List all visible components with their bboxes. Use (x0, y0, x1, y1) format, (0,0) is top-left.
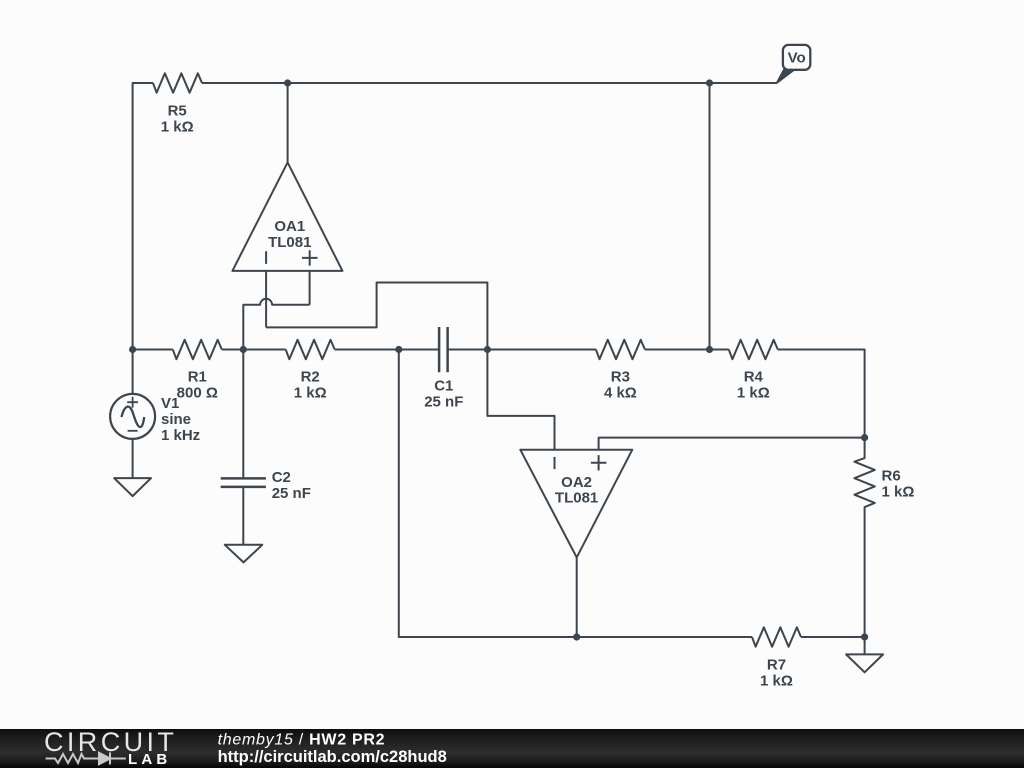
op-amp OA2 triangle (520, 450, 632, 558)
svg-text:R6: R6 (882, 468, 901, 485)
wire bottom net: C1 left node down and right to R7 (399, 350, 752, 638)
wire R2 to C1 (335, 349, 439, 351)
wire OA2 noninv input to R6 top node (599, 438, 865, 450)
svg-text:http://circuitlab.com/c28hud8: http://circuitlab.com/c28hud8 (218, 748, 447, 766)
wire OA1 inv input loop to C1 right node (266, 283, 487, 350)
wire top (net Vout) from R5 to Vo flag (202, 82, 776, 84)
wire C1 right node down to OA2 inv input (487, 350, 554, 450)
svg-text:1 kΩ: 1 kΩ (294, 385, 327, 402)
node: R2 / C1 / bottom net (395, 346, 402, 353)
svg-text:25 nF: 25 nF (424, 394, 463, 411)
svg-text:1 kΩ: 1 kΩ (737, 385, 770, 402)
wire R7 to ground node (801, 636, 865, 638)
V1 minus marker (128, 430, 138, 432)
ground symbol (V1) (114, 478, 151, 496)
wire vertical from top net down to R3/R4 node (709, 83, 711, 350)
svg-text:OA1: OA1 (274, 218, 305, 235)
wire V1 bottom to ground (132, 439, 134, 478)
svg-text:R5: R5 (168, 103, 187, 120)
OA1 plus marker (302, 250, 318, 265)
footer bar (0, 729, 1024, 768)
wire OA1 output up to top net (287, 83, 289, 162)
V1 plus marker (127, 397, 138, 408)
wire ground stub at R6/R7 node (864, 637, 866, 654)
node: C1 / OA1- / OA2- (484, 346, 491, 353)
svg-text:TL081: TL081 (268, 234, 311, 251)
svg-text:C1: C1 (434, 378, 453, 395)
node: V1 / R1 / R5 (129, 346, 136, 353)
OA1 inverting marker (265, 251, 267, 264)
op-amp OA1 triangle (232, 162, 342, 271)
node: OA1 out / top net (284, 79, 291, 86)
svg-text:1 kΩ: 1 kΩ (882, 484, 915, 501)
OA1 inverting input pin (265, 271, 267, 328)
voltage source V1 circle (110, 394, 155, 439)
resistor R3 (596, 340, 645, 359)
resistor R5 (153, 73, 202, 92)
wire C2 branch: node down to C2 (242, 350, 244, 479)
svg-text:1 kHz: 1 kHz (161, 427, 200, 444)
svg-text:LAB: LAB (128, 751, 171, 768)
wire OA2 output down to bottom net (576, 557, 578, 637)
svg-text:25 nF: 25 nF (272, 485, 311, 502)
node junction dots (129, 79, 868, 640)
svg-text:800 Ω: 800 Ω (177, 385, 218, 402)
resistor R1 (173, 340, 222, 359)
svg-text:TL081: TL081 (555, 490, 598, 507)
svg-text:sine: sine (161, 411, 191, 428)
V1 sine wave (122, 407, 145, 427)
node: OA2 out / bottom net (573, 633, 580, 640)
Vo flag box (783, 45, 810, 70)
Vo flag pointer (776, 70, 794, 84)
wire top-left corner / left vertical down to V1 (133, 83, 153, 394)
node: R6 / R7 / ground (861, 633, 868, 640)
resistor R2 (286, 340, 335, 359)
wire OA1 noninv input to R1/R2 node (with hop over inv wire) (243, 299, 309, 350)
svg-text:1 kΩ: 1 kΩ (760, 673, 793, 690)
svg-text:R7: R7 (767, 657, 786, 674)
svg-text:R3: R3 (611, 369, 630, 386)
svg-text:R1: R1 (188, 369, 207, 386)
wire C2 to ground (242, 487, 244, 545)
svg-text:1 kΩ: 1 kΩ (161, 119, 194, 136)
node: R4 / OA2+ / R6 (861, 434, 868, 441)
resistor R4 (729, 340, 778, 359)
svg-text:4 kΩ: 4 kΩ (604, 385, 637, 402)
OA2 inverting marker (554, 457, 556, 469)
capacitor C2 (221, 478, 266, 487)
wire R3 to R4 (645, 349, 729, 351)
node: R1 / R2 / C2 / OA1+ (240, 346, 247, 353)
resistor R6 (vertical) (854, 438, 874, 637)
wire R1 to R2 (222, 349, 286, 351)
svg-text:OA2: OA2 (561, 474, 592, 491)
svg-text:R2: R2 (301, 369, 320, 386)
svg-text:C2: C2 (272, 469, 291, 486)
svg-text:themby15 / HW2 PR2: themby15 / HW2 PR2 (218, 732, 386, 749)
resistor R7 (752, 627, 801, 646)
ground symbol (R6/R7) (846, 654, 883, 672)
wire main row: left node to R1 (133, 349, 173, 351)
svg-text:R4: R4 (744, 369, 764, 386)
wire R4 right corner down to R6 node (778, 350, 865, 438)
OA1 non-inverting input pin (309, 271, 311, 305)
node: R3 / R4 / top net (706, 346, 713, 353)
ground symbol (C2) (225, 545, 262, 563)
wire C1 to R3 (448, 349, 596, 351)
OA2 plus marker (591, 455, 607, 470)
footer logo resistor-diode glyph (46, 753, 126, 765)
node: Vo junction (706, 79, 713, 86)
capacitor C1 (439, 327, 448, 372)
svg-text:V1: V1 (161, 395, 179, 412)
svg-text:Vo: Vo (788, 49, 806, 66)
